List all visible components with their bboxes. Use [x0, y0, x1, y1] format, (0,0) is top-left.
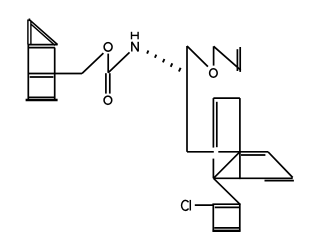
- Cl-ring top inner double-bond line: [215, 206, 240, 208]
- ring left edge outer: [27, 20, 29, 45]
- triangle base: [28, 44, 57, 46]
- bond Cl to ring: [195, 204, 214, 206]
- phenyl ring (benzyl), degenerate drawing: triangle over rectangle: [26, 19, 82, 100]
- atom label O (ester): [104, 43, 112, 52]
- bond ether O up to allyl CH2: [213, 46, 215, 65]
- Cl-ring right edge: [239, 204, 241, 231]
- ring hypotenuse inner double-bond line: [31, 24, 55, 45]
- middle rung upper + bond to CH2: [28, 73, 82, 75]
- ring3 bottom second line: [265, 180, 294, 182]
- ring2 left edge outer: [212, 98, 214, 148]
- ring left edge inner double-bond line: [30, 21, 32, 44]
- bond C-CH2 to ether O (diagonal): [187, 46, 208, 67]
- chlorophenyl ring: [212, 204, 240, 231]
- bond O to carbonyl C: [107, 54, 109, 73]
- Cl-ring left edge: [212, 204, 214, 231]
- bond CH2 to ester O: [82, 53, 103, 73]
- Cl-ring top outer: [212, 203, 240, 205]
- bond V up to ring2 bottom-left: [212, 159, 214, 179]
- apex blob: [29, 18, 31, 21]
- bottom outer thick edge: [26, 99, 58, 102]
- bond carbonyl C to N: [108, 52, 129, 72]
- aromatic ring 2 (tall rectangle): [213, 98, 240, 179]
- C=O double bond: [105, 73, 107, 93]
- ring3 / V horizontal bottom bond: [214, 177, 293, 179]
- ring2 top edge: [213, 97, 240, 99]
- ring3 top inner double-bond line: [241, 154, 265, 156]
- ring2 left edge inner double-bond line: [216, 102, 218, 147]
- bottom inner double-bond line: [29, 96, 55, 98]
- rectangle top edge: [29, 47, 55, 49]
- bond V diagonal up-right to junction: [214, 152, 240, 178]
- rectangle right edge: [54, 48, 56, 100]
- atom label O (carbonyl): [104, 96, 112, 104]
- hashed stereo bond N to C1: [147, 51, 181, 72]
- atom label N: [132, 42, 138, 52]
- bond allyl CH2 to CH (diagonal): [214, 46, 241, 70]
- atom label H on N: [132, 32, 139, 40]
- ring hypotenuse outer: [29, 19, 58, 44]
- middle rung lower double-bond line: [30, 76, 54, 78]
- atom label Cl: [182, 200, 191, 211]
- long vertical bond C1 chain: [186, 46, 188, 152]
- ring2 right edge (long): [239, 98, 241, 179]
- Cl-ring bottom inner double-bond line: [214, 227, 239, 229]
- Cl-ring bottom outer thick edge: [212, 230, 240, 232]
- long horizontal bond from C1 chain to ring junction: [187, 151, 214, 153]
- atom label O (ether): [210, 69, 218, 78]
- bond V diagonal down-right to Cl-ring corner: [214, 178, 240, 204]
- allyl C=C double bond vertical lines: [236, 49, 238, 71]
- ring3 diagonal edge: [268, 152, 293, 178]
